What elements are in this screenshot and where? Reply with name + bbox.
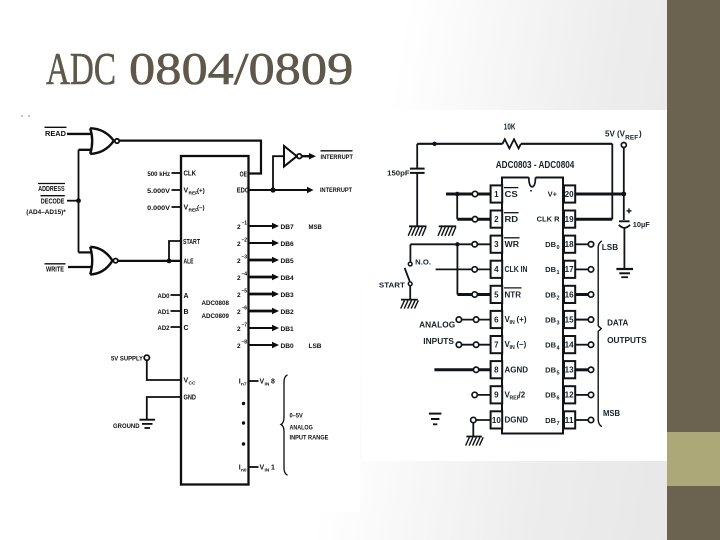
svg-text:8: 8 bbox=[271, 379, 275, 386]
svg-text:IN: IN bbox=[510, 320, 515, 326]
svg-text:5: 5 bbox=[494, 290, 499, 299]
svg-text:0–5V: 0–5V bbox=[290, 412, 304, 419]
svg-text:4: 4 bbox=[494, 265, 499, 274]
svg-text:2: 2 bbox=[237, 309, 241, 316]
svg-text:CLK IN: CLK IN bbox=[505, 265, 528, 274]
svg-text:–1: –1 bbox=[242, 221, 248, 227]
svg-text:B: B bbox=[184, 309, 189, 316]
svg-text:10K: 10K bbox=[504, 122, 516, 131]
svg-text:7: 7 bbox=[557, 421, 560, 427]
svg-text:AD1: AD1 bbox=[158, 309, 170, 316]
svg-text:ADC0803 - ADC0804: ADC0803 - ADC0804 bbox=[496, 160, 575, 171]
svg-text:C: C bbox=[184, 325, 189, 332]
svg-text:OUTPUTS: OUTPUTS bbox=[607, 336, 647, 345]
svg-text:READ: READ bbox=[45, 131, 66, 138]
svg-text:V+: V+ bbox=[548, 190, 558, 199]
svg-text:DB: DB bbox=[545, 416, 556, 425]
svg-text:DB5: DB5 bbox=[281, 258, 295, 265]
svg-text:DB1: DB1 bbox=[281, 326, 295, 333]
svg-text:1: 1 bbox=[494, 190, 499, 199]
svg-text:2: 2 bbox=[557, 295, 560, 301]
svg-text:N.O.: N.O. bbox=[415, 258, 431, 267]
svg-text:IN: IN bbox=[265, 468, 270, 474]
svg-text:–4: –4 bbox=[242, 272, 248, 278]
svg-text:ADC0809: ADC0809 bbox=[202, 313, 230, 320]
svg-text:13: 13 bbox=[565, 366, 575, 375]
svg-text:2: 2 bbox=[237, 258, 241, 265]
svg-text:19: 19 bbox=[565, 215, 575, 224]
svg-text:START: START bbox=[379, 280, 405, 289]
svg-text:15: 15 bbox=[565, 315, 575, 324]
svg-text:LSB: LSB bbox=[309, 343, 322, 350]
svg-text:AD2: AD2 bbox=[158, 325, 170, 332]
svg-text:2: 2 bbox=[237, 292, 241, 299]
svg-text:DB: DB bbox=[545, 366, 556, 375]
svg-text:START: START bbox=[183, 239, 201, 246]
svg-text:DB: DB bbox=[545, 341, 556, 350]
svg-text:7: 7 bbox=[494, 341, 499, 350]
svg-text:–6: –6 bbox=[242, 306, 248, 312]
svg-text:(+): (+) bbox=[517, 315, 527, 324]
svg-text:AGND: AGND bbox=[505, 365, 529, 374]
svg-text:WRITE: WRITE bbox=[46, 266, 64, 273]
svg-text:ADC0808: ADC0808 bbox=[202, 300, 230, 307]
svg-text:EDC: EDC bbox=[237, 187, 249, 194]
svg-text:DB7: DB7 bbox=[281, 224, 295, 231]
svg-text:–7: –7 bbox=[242, 323, 248, 329]
svg-text:DB0: DB0 bbox=[281, 343, 295, 350]
svg-text:2: 2 bbox=[237, 224, 241, 231]
svg-text:–2: –2 bbox=[242, 238, 248, 244]
svg-text:): ) bbox=[639, 130, 642, 139]
svg-text:n7: n7 bbox=[241, 382, 247, 388]
svg-text:CLK: CLK bbox=[184, 171, 197, 178]
svg-text:IN: IN bbox=[265, 382, 270, 388]
svg-text:20: 20 bbox=[565, 190, 575, 199]
svg-text:MSB: MSB bbox=[309, 224, 323, 231]
svg-text:0: 0 bbox=[557, 245, 560, 251]
svg-text:DECODE: DECODE bbox=[41, 198, 65, 205]
svg-text:–5: –5 bbox=[242, 289, 248, 295]
svg-text:2: 2 bbox=[237, 343, 241, 350]
svg-text:INTERRUPT: INTERRUPT bbox=[320, 187, 352, 194]
svg-text:LSB: LSB bbox=[602, 243, 619, 252]
svg-text:5: 5 bbox=[557, 371, 560, 377]
svg-text:CS: CS bbox=[505, 190, 519, 199]
svg-text:AD0: AD0 bbox=[158, 293, 170, 300]
svg-text:ADDRESS: ADDRESS bbox=[38, 186, 65, 193]
svg-text:2: 2 bbox=[237, 326, 241, 333]
svg-text:2: 2 bbox=[237, 275, 241, 282]
svg-text:500 kHz: 500 kHz bbox=[147, 171, 170, 178]
svg-text:8: 8 bbox=[494, 366, 499, 375]
svg-text:2: 2 bbox=[494, 215, 499, 224]
svg-text:IN: IN bbox=[510, 345, 515, 351]
svg-text:DB: DB bbox=[545, 290, 556, 299]
svg-text:(+): (+) bbox=[197, 188, 205, 195]
svg-text:18: 18 bbox=[565, 240, 575, 249]
svg-text:RD: RD bbox=[505, 215, 519, 224]
svg-text:(–): (–) bbox=[517, 340, 527, 349]
svg-text:DB4: DB4 bbox=[281, 275, 295, 282]
svg-text:ANALOG: ANALOG bbox=[290, 425, 313, 432]
svg-text:GROUND: GROUND bbox=[113, 423, 140, 430]
svg-text:INPUTS: INPUTS bbox=[423, 337, 454, 346]
svg-text:DB2: DB2 bbox=[281, 309, 295, 316]
svg-text:1: 1 bbox=[271, 465, 275, 472]
svg-text:6: 6 bbox=[557, 396, 560, 402]
svg-text:10µF: 10µF bbox=[633, 220, 650, 229]
svg-text:5.000V: 5.000V bbox=[147, 188, 170, 195]
svg-text:6: 6 bbox=[494, 315, 499, 324]
svg-text:MSB: MSB bbox=[603, 409, 620, 418]
svg-text:10: 10 bbox=[492, 416, 502, 425]
svg-text:A: A bbox=[184, 293, 189, 300]
svg-text:DB: DB bbox=[545, 240, 556, 249]
svg-text:/2: /2 bbox=[519, 390, 526, 399]
svg-text:–8: –8 bbox=[242, 340, 248, 346]
svg-text:DB: DB bbox=[545, 265, 556, 274]
svg-text:1: 1 bbox=[557, 270, 560, 276]
svg-text:n0: n0 bbox=[241, 468, 247, 474]
svg-text:12: 12 bbox=[565, 391, 575, 400]
svg-text:NTR: NTR bbox=[505, 290, 522, 299]
svg-text:CLK R: CLK R bbox=[537, 215, 560, 224]
svg-text:DB6: DB6 bbox=[281, 241, 295, 248]
svg-text:5V SUPPLY: 5V SUPPLY bbox=[111, 356, 144, 363]
svg-text:(AD4–AD15)*: (AD4–AD15)* bbox=[26, 209, 66, 216]
svg-text:(–): (–) bbox=[197, 205, 205, 212]
svg-text:9: 9 bbox=[494, 391, 499, 400]
svg-text:2: 2 bbox=[237, 241, 241, 248]
svg-text:DATA: DATA bbox=[607, 318, 628, 327]
svg-text:ANALOG: ANALOG bbox=[419, 321, 455, 330]
svg-text:REF: REF bbox=[625, 136, 638, 142]
svg-text:16: 16 bbox=[565, 290, 575, 299]
svg-text:17: 17 bbox=[565, 265, 575, 274]
svg-text:3: 3 bbox=[494, 240, 499, 249]
svg-text:0.000V: 0.000V bbox=[147, 205, 170, 212]
svg-text:DB: DB bbox=[545, 391, 556, 400]
svg-text:150pF: 150pF bbox=[387, 169, 410, 178]
svg-text:WR: WR bbox=[505, 240, 520, 249]
svg-text:INTERRUPT: INTERRUPT bbox=[321, 154, 353, 161]
svg-text:11: 11 bbox=[565, 416, 575, 425]
svg-text:OE: OE bbox=[240, 172, 248, 179]
svg-text:ALE: ALE bbox=[184, 259, 194, 266]
svg-text:DGND: DGND bbox=[505, 416, 529, 425]
svg-text:CC: CC bbox=[189, 381, 196, 387]
svg-text:3: 3 bbox=[557, 320, 560, 326]
svg-text:DB3: DB3 bbox=[281, 292, 295, 299]
svg-text:INPUT RANGE: INPUT RANGE bbox=[290, 435, 329, 442]
svg-text:14: 14 bbox=[565, 341, 575, 350]
svg-text:GND: GND bbox=[184, 395, 197, 402]
svg-text:DB: DB bbox=[545, 315, 556, 324]
svg-text:–3: –3 bbox=[242, 255, 248, 261]
svg-text:5V (V: 5V (V bbox=[605, 130, 626, 139]
